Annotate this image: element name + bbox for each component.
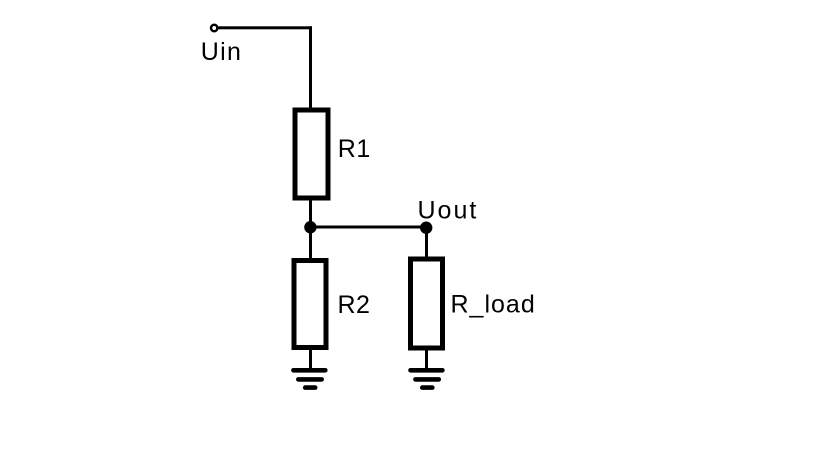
resistor R_load <box>411 259 443 348</box>
ground 2 (under R_load) <box>411 370 443 387</box>
resistor R2 <box>294 261 326 348</box>
resistor R1 <box>295 110 328 198</box>
svg-text:R1: R1 <box>338 135 371 163</box>
wire: top corner down to R1 top (vertical) <box>309 26 312 108</box>
junction node Uout (filled dot) <box>420 222 432 234</box>
svg-text:R_load: R_load <box>451 291 536 319</box>
svg-text:Uin: Uin <box>201 38 242 66</box>
svg-text:Uout: Uout <box>418 196 479 224</box>
wire: node A to node Uout (horizontal) <box>310 226 427 229</box>
ground 1 (under R2) <box>293 370 325 387</box>
wire: R_load bottom to ground 2 (vertical) <box>425 348 428 370</box>
junction node A (filled dot) <box>304 221 316 233</box>
wire: Uin terminal to top corner (horizontal) <box>219 26 313 29</box>
input terminal (open circle) <box>211 25 217 31</box>
wire: R2 bottom to ground 1 (vertical) <box>309 348 312 370</box>
wire: node Uout down to R_load top (vertical) <box>425 227 428 259</box>
svg-text:R2: R2 <box>338 291 371 319</box>
wire: R1 bottom to node A (vertical) <box>309 198 312 228</box>
wire: node A down to R2 top (vertical) <box>309 227 312 260</box>
